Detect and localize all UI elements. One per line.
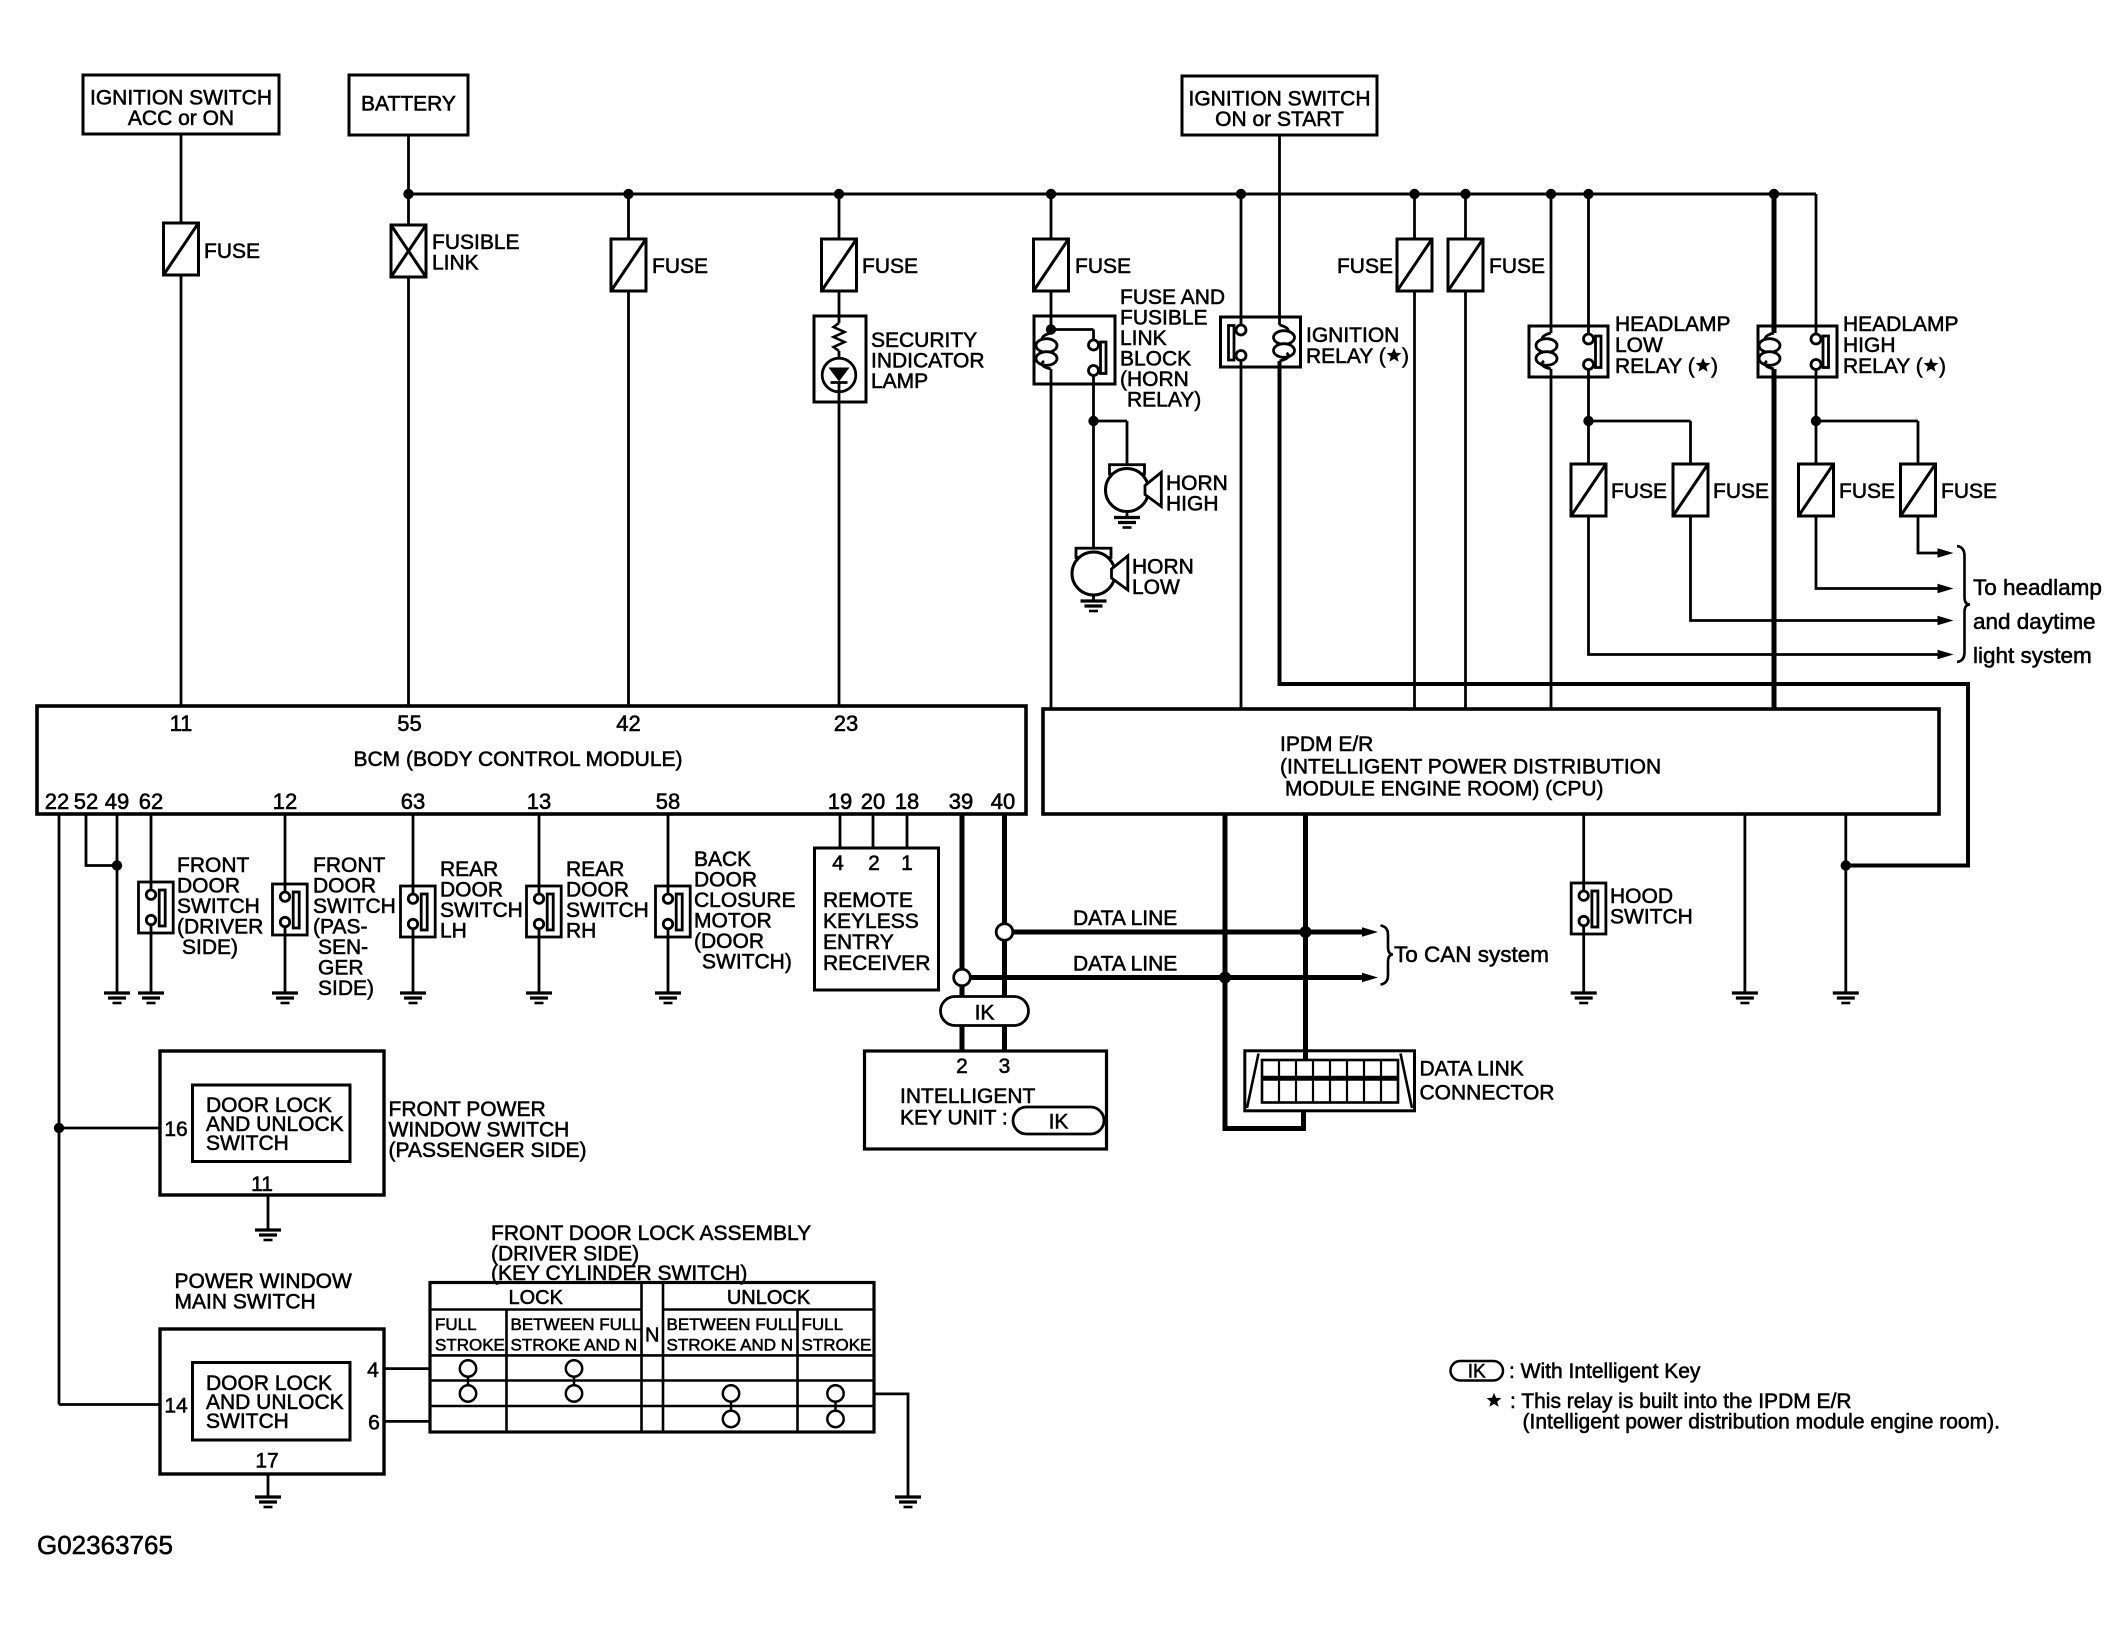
svg-text:(INTELLIGENT POWER DISTRIBUTIO: (INTELLIGENT POWER DISTRIBUTION (1280, 756, 1661, 779)
IK oval on pins 39 40 (941, 997, 1029, 1026)
svg-text:11: 11 (251, 1173, 273, 1196)
svg-text:2: 2 (868, 852, 880, 875)
security indicator lamp (resistor + LED) (814, 316, 866, 402)
fuse F10 (1799, 464, 1834, 516)
fuse F5 (IPDM feed, label left) (1413, 194, 1416, 239)
front door switch (passenger side) (273, 884, 308, 935)
ground G11 (1833, 991, 1859, 994)
fusible link FL1 (407, 194, 410, 225)
key cylinder switch table (430, 1283, 874, 1433)
junction dots on bus (403, 189, 413, 199)
ignition relay (*) (1240, 194, 1243, 325)
wire: main switch pin 6 to key cylinder table (384, 1420, 430, 1423)
svg-text:CONNECTOR: CONNECTOR (1420, 1082, 1555, 1105)
wire: IPDM to data link connector right branch (thick) (1303, 814, 1308, 1060)
wire: ignition switch on/start return to ground node (1280, 361, 1969, 866)
wire: BCM pin 13 to rear door switch RH (538, 814, 541, 886)
wire: fuse F9 to headlamp system arrow 3 (1691, 516, 1938, 621)
svg-text:12: 12 (273, 789, 297, 814)
wire: fuse F8 to headlamp system arrow 4 (1589, 516, 1938, 655)
wire: fuse F6 to IPDM E/R (1464, 291, 1467, 709)
BCM (BODY CONTROL MODULE) box (37, 706, 1026, 814)
svg-text:STROKE: STROKE (802, 1336, 872, 1355)
ground G2 (138, 991, 164, 994)
data line 2 (thick) (962, 975, 1362, 980)
svg-text:FULL: FULL (435, 1315, 477, 1334)
front door switch (driver side) (139, 882, 174, 933)
svg-text:To CAN system: To CAN system (1394, 942, 1549, 967)
svg-text:55: 55 (397, 711, 421, 736)
wire: rear door switch LH to ground (412, 937, 415, 993)
svg-text:23: 23 (834, 711, 858, 736)
svg-text:LH: LH (440, 920, 467, 943)
svg-text:SWITCH): SWITCH) (702, 951, 792, 974)
ground G7 (horn high) (1114, 516, 1140, 519)
svg-text:LOW: LOW (1615, 334, 1663, 357)
svg-text:2: 2 (956, 1055, 968, 1078)
wire: BCM pin 52 jog to pin 49 wire (86, 814, 117, 866)
svg-text:REMOTE: REMOTE (823, 889, 913, 912)
wire: BCM pin 22 to power window switches (58, 814, 61, 1128)
wire: hood switch to ground (1582, 934, 1585, 993)
switch contacts: unlock full stroke (827, 1385, 843, 1401)
svg-text:BETWEEN FULL: BETWEEN FULL (511, 1315, 641, 1334)
switch contacts: unlock between full stroke and N (723, 1385, 739, 1401)
svg-text:INTELLIGENT: INTELLIGENT (900, 1085, 1036, 1108)
svg-text:6: 6 (368, 1412, 380, 1435)
legend: star note (1487, 1393, 1502, 1407)
wire: front power window switch pin 11 to ground (267, 1195, 270, 1230)
svg-text:IGNITION: IGNITION (1306, 324, 1399, 347)
legend: IK oval (1451, 1361, 1504, 1381)
ground G14 (895, 1495, 921, 1498)
svg-text:63: 63 (401, 789, 425, 814)
ground G1 (104, 991, 130, 994)
intelligent key unit box (865, 1051, 1107, 1149)
svg-text:16: 16 (164, 1118, 187, 1141)
svg-text:14: 14 (164, 1395, 188, 1418)
wire: fuse F11 to headlamp system arrow 1 (1918, 516, 1938, 553)
svg-text:FUSE: FUSE (1489, 255, 1545, 278)
node: data line 2 tap on pin 39 (954, 969, 971, 986)
svg-text:): ) (1711, 355, 1718, 378)
ground G6 (655, 991, 681, 994)
svg-text:MAIN SWITCH: MAIN SWITCH (175, 1291, 316, 1314)
svg-text:(PASSENGER SIDE): (PASSENGER SIDE) (389, 1139, 587, 1162)
svg-text:HIGH: HIGH (1166, 493, 1219, 516)
svg-text:52: 52 (74, 789, 98, 814)
wire: fuse F10 to headlamp system arrow 2 (1816, 516, 1938, 589)
svg-text:ON or START: ON or START (1215, 108, 1344, 131)
svg-text:LAMP: LAMP (871, 370, 928, 393)
wire: fuse F5 to IPDM E/R (1413, 291, 1416, 709)
svg-text:SIDE): SIDE) (182, 936, 238, 959)
svg-text:17: 17 (255, 1450, 278, 1473)
svg-text:3: 3 (999, 1055, 1011, 1078)
svg-text:FUSE: FUSE (1075, 255, 1131, 278)
wire: front door switch driver to ground (150, 933, 153, 993)
fuse F9 (1673, 464, 1708, 516)
wire: back door closure motor to ground (667, 937, 670, 993)
svg-text:RELAY (: RELAY ( (1615, 355, 1695, 378)
wire: fuse F2 to BCM pin 42 (627, 291, 630, 707)
switch contacts: lock between full stroke and N (566, 1360, 582, 1376)
svg-text:KEY UNIT :: KEY UNIT : (900, 1107, 1008, 1130)
svg-text:FUSE: FUSE (1839, 480, 1895, 503)
battery bus wire (409, 193, 1817, 196)
svg-text:FUSE: FUSE (1611, 480, 1667, 503)
svg-text:IK: IK (1468, 1362, 1486, 1383)
ground G10 (1732, 991, 1758, 994)
svg-text:and daytime: and daytime (1973, 609, 2096, 634)
svg-text:20: 20 (861, 789, 885, 814)
headlamp high relay (*) (1772, 194, 1777, 333)
svg-text:STROKE AND N: STROKE AND N (511, 1336, 638, 1355)
wire: security lamp to BCM pin 23 (838, 402, 841, 707)
svg-text:RELAY (: RELAY ( (1843, 355, 1923, 378)
fuse and fusible link block (horn relay) (1034, 316, 1115, 384)
arrows to headlamp and daytime light system (1938, 548, 1954, 558)
ground G9 (1571, 991, 1597, 994)
IPDM E/R (INTELLIGENT POWER DISTRIBUTION MODULE ENGINE ROOM) (CPU) box (1043, 709, 1939, 814)
svg-text:To headlamp: To headlamp (1973, 575, 2102, 600)
wire: horn high to ground (1126, 512, 1129, 518)
wire: fuse F1 to BCM pin 11 (180, 275, 183, 707)
svg-text:62: 62 (139, 789, 163, 814)
wire: BCM pin 39 to intelligent key unit (thick) (960, 814, 965, 1051)
power window main switch box (160, 1329, 384, 1474)
data line 1 (thick) (1005, 930, 1363, 935)
svg-text:RH: RH (566, 920, 596, 943)
svg-text:LOW: LOW (1132, 576, 1180, 599)
svg-text:G02363765: G02363765 (37, 1530, 173, 1560)
horn high (1110, 465, 1145, 474)
wire: IPDM ground pin to ground G11 (1844, 814, 1847, 993)
wire: BCM pin 12 to front door switch passenger side (284, 814, 287, 884)
svg-text:49: 49 (105, 789, 129, 814)
svg-text:ACC or ON: ACC or ON (128, 107, 234, 130)
wire: fuse F3 to security indicator lamp (838, 291, 841, 316)
ground G3 (272, 991, 298, 994)
switch contacts: lock full stroke (460, 1360, 476, 1376)
svg-text:LOCK: LOCK (508, 1287, 563, 1309)
ground G12 (255, 1228, 281, 1231)
svg-text:(Intelligent power distributio: (Intelligent power distribution module e… (1523, 1411, 2000, 1434)
svg-text:STROKE: STROKE (435, 1336, 505, 1355)
svg-text:SIDE): SIDE) (318, 977, 374, 1000)
wire: battery to bus (407, 135, 410, 194)
ground G8 (horn low) (1081, 599, 1107, 602)
fuse F4 (horn relay feed) (1050, 194, 1053, 239)
wire: ignition relay contact to IPDM E/R (1240, 361, 1243, 710)
wire: BCM pin 62 to front door switch driver side (150, 814, 153, 882)
svg-text:): ) (1402, 345, 1409, 368)
fuse F8 (1571, 464, 1606, 516)
svg-text:DATA LINE: DATA LINE (1073, 907, 1177, 930)
svg-text:BATTERY: BATTERY (361, 93, 456, 116)
svg-text:LINK: LINK (432, 252, 479, 275)
svg-text:18: 18 (895, 789, 919, 814)
rear door switch LH (401, 886, 436, 937)
svg-text:42: 42 (616, 711, 640, 736)
svg-text:RECEIVER: RECEIVER (823, 952, 930, 975)
fuse F1 (ACC feed) (164, 223, 199, 275)
svg-text:RELAY): RELAY) (1127, 389, 1201, 412)
svg-text:22: 22 (45, 789, 69, 814)
svg-text:13: 13 (527, 789, 551, 814)
wire: IPDM to hood switch (1582, 814, 1585, 883)
wire: ignition switch ACC to fuse F1 (180, 134, 183, 223)
wires: BCM pins 19 20 18 to remote keyless entry receiver (839, 814, 842, 848)
wire: front door switch passenger to ground (284, 935, 287, 993)
wire: BCM pin 63 to rear door switch LH (412, 814, 415, 886)
wire: key cylinder switch to ground (874, 1394, 908, 1497)
svg-text:: With Intelligent Key: : With Intelligent Key (1509, 1360, 1701, 1383)
wire: horn relay coil to IPDM E/R (1050, 384, 1053, 709)
horn low (1076, 548, 1111, 557)
svg-text:IK: IK (975, 1002, 995, 1025)
svg-text:40: 40 (991, 789, 1015, 814)
svg-text:SWITCH: SWITCH (1610, 906, 1693, 929)
wire: fusible link to BCM pin 55 (407, 277, 410, 707)
svg-text:4: 4 (832, 852, 844, 875)
wire: IPDM to data link connector left branch (thick) (1225, 814, 1304, 1129)
wire: fuse F4 to horn relay block (1050, 291, 1053, 316)
power source box: IGNITION SWITCH ON or START (1182, 76, 1377, 135)
back door closure motor (door switch) (656, 886, 691, 937)
wire: headlamp high relay contact to fuses F10 F11 (1815, 370, 1818, 464)
fuse F6 (IPDM feed, label right) (1464, 194, 1467, 239)
wire: headlamp low relay contact to fuses F8 F9 (1587, 370, 1590, 464)
rear door switch RH (527, 886, 562, 937)
svg-text:BCM (BODY CONTROL MODULE): BCM (BODY CONTROL MODULE) (353, 748, 682, 771)
hood switch (1571, 883, 1606, 934)
node: data line 1 tap on pin 40 (996, 924, 1013, 941)
wire: rear door switch RH to ground (538, 937, 541, 993)
svg-text:1: 1 (901, 852, 913, 875)
svg-text:N: N (645, 1325, 659, 1347)
svg-text:FULL: FULL (802, 1315, 844, 1334)
svg-text:IPDM E/R: IPDM E/R (1280, 733, 1373, 756)
svg-text:ENTRY: ENTRY (823, 931, 894, 954)
svg-text:HEADLAMP: HEADLAMP (1843, 313, 1959, 336)
svg-text:FUSE: FUSE (862, 255, 918, 278)
wire: horn low to ground (1092, 595, 1095, 601)
brace To CAN system (1381, 926, 1394, 985)
svg-text:FUSE: FUSE (1337, 255, 1393, 278)
svg-text:4: 4 (367, 1359, 379, 1382)
svg-text:UNLOCK: UNLOCK (727, 1287, 811, 1309)
svg-text:DATA LINK: DATA LINK (1420, 1058, 1524, 1081)
svg-text:STROKE AND N: STROKE AND N (667, 1336, 794, 1355)
svg-text:BETWEEN FULL: BETWEEN FULL (667, 1315, 797, 1334)
svg-text:RELAY (: RELAY ( (1306, 345, 1386, 368)
wire: BCM pin 40 to intelligent key unit (thick) (1002, 814, 1007, 1051)
wire: BCM pin 49 to ground (116, 814, 119, 993)
wire: IPDM ground pin to ground G10 (1744, 814, 1747, 993)
svg-text:FUSE: FUSE (1713, 480, 1769, 503)
headlamp low relay (*) (1550, 194, 1553, 333)
power source box: IGNITION SWITCH ACC or ON (83, 75, 279, 134)
fuse F3 (security lamp feed) (838, 194, 841, 239)
svg-text:SWITCH: SWITCH (206, 1132, 289, 1155)
svg-text:11: 11 (170, 711, 193, 736)
wire: headlamp low relay coil to IPDM E/R (1550, 369, 1553, 709)
ground G5 (526, 991, 552, 994)
front power window switch (passenger side) box (160, 1051, 384, 1195)
svg-text:HIGH: HIGH (1843, 334, 1896, 357)
fuse F2 (BCM pin 42 feed) (627, 194, 630, 239)
wire: horn relay contact to horns (1092, 384, 1095, 421)
svg-text:DATA LINE: DATA LINE (1073, 953, 1177, 976)
svg-text:KEYLESS: KEYLESS (823, 910, 919, 933)
svg-text:FUSE: FUSE (1941, 480, 1997, 503)
svg-text:58: 58 (656, 789, 680, 814)
svg-text:HEADLAMP: HEADLAMP (1615, 313, 1731, 336)
svg-text:19: 19 (828, 789, 852, 814)
ground G13 (255, 1495, 281, 1498)
svg-text:): ) (1939, 355, 1946, 378)
brace for headlamp system (1957, 546, 1970, 662)
svg-text:FUSE: FUSE (652, 255, 708, 278)
wire: headlamp high relay coil to IPDM E/R (thick) (1772, 369, 1777, 709)
wire: main switch pin 17 to ground (267, 1474, 270, 1497)
wire: main switch pin 4 to key cylinder table (384, 1367, 430, 1370)
ground G4 (400, 991, 426, 994)
power source box: BATTERY (349, 75, 468, 135)
remote keyless entry receiver box (815, 848, 939, 990)
svg-text:IK: IK (1049, 1111, 1069, 1134)
svg-text:39: 39 (949, 789, 973, 814)
svg-text:SWITCH: SWITCH (206, 1410, 289, 1433)
wire: BCM pin 58 to back door closure motor (667, 814, 670, 886)
svg-text:MODULE ENGINE ROOM) (CPU): MODULE ENGINE ROOM) (CPU) (1285, 778, 1604, 801)
svg-text:light system: light system (1973, 643, 2092, 668)
svg-text:FUSE: FUSE (204, 240, 260, 263)
data link connector (1245, 1051, 1415, 1111)
fuse F11 (1901, 464, 1936, 516)
